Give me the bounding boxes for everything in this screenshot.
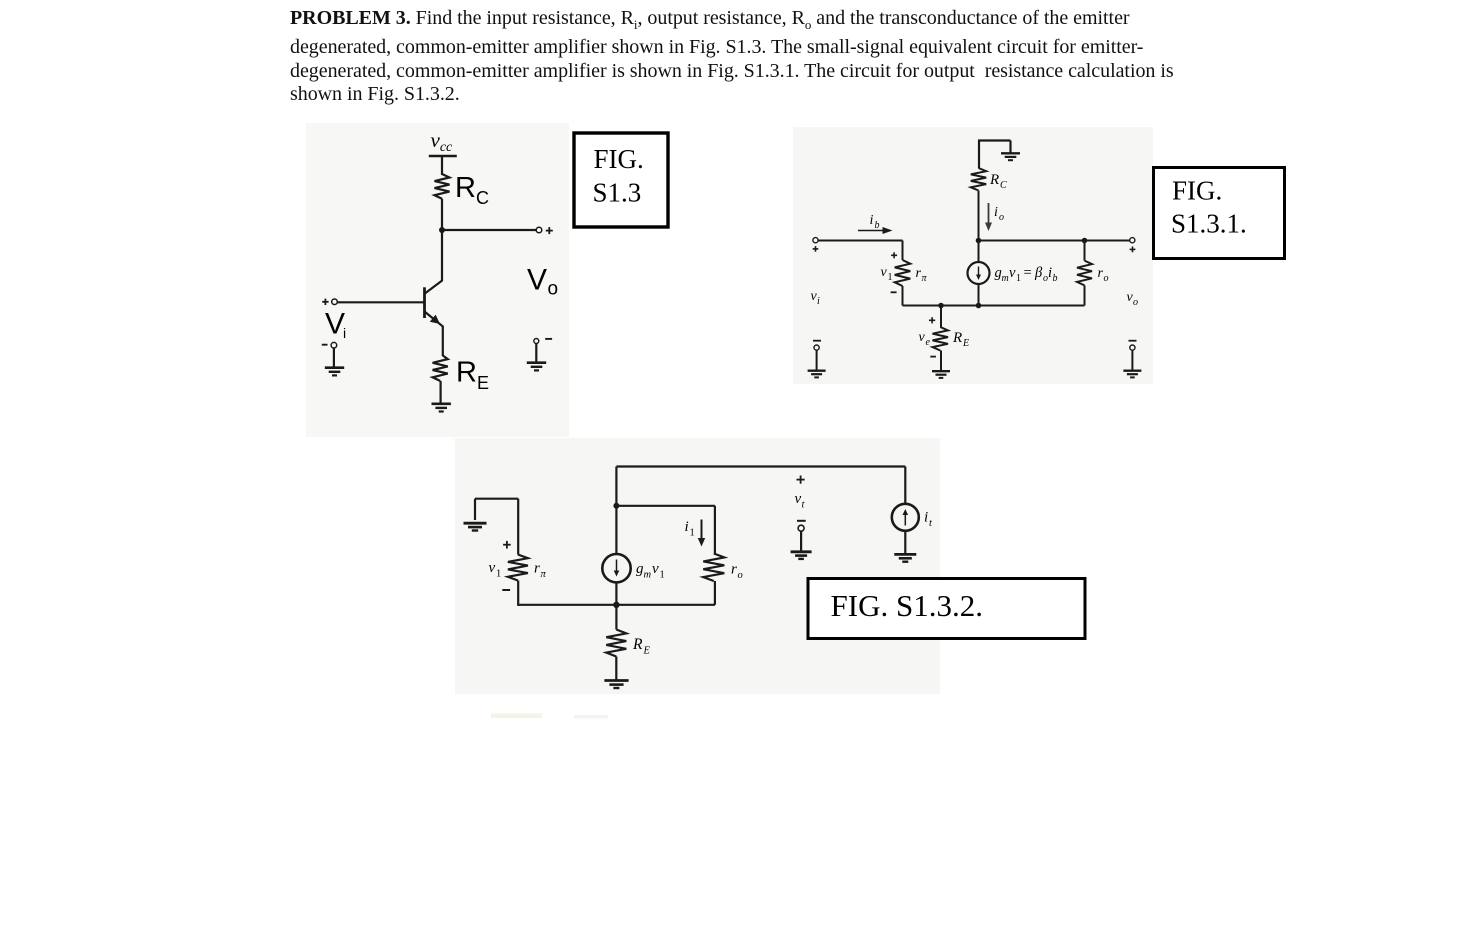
minus ve [930, 356, 936, 358]
label vo italic [1127, 290, 1139, 308]
label vi italic [811, 289, 821, 307]
faint residue marks [491, 714, 608, 719]
plus ve [929, 317, 935, 323]
svg-text:R: R [952, 330, 962, 346]
svg-text:r: r [731, 562, 737, 578]
ground vi [808, 371, 826, 378]
svg-text:=: = [1024, 265, 1032, 281]
svg-text:o: o [738, 570, 743, 581]
ground top [1001, 153, 1020, 160]
svg-text:C: C [1000, 180, 1007, 191]
svg-text:i: i [817, 296, 820, 307]
node collector junction [439, 227, 445, 233]
plus vi [813, 246, 819, 252]
output plus sign [546, 227, 553, 234]
svg-text:b: b [875, 220, 880, 231]
node ro top [1082, 238, 1088, 244]
top long wire [616, 467, 905, 507]
minus r_pi [891, 291, 897, 293]
left hook wire [475, 499, 518, 555]
wire source top test [615, 506, 617, 554]
wire ro bottom [714, 581, 716, 605]
vo minus bar [1129, 340, 1137, 342]
label Vo [527, 264, 558, 300]
svg-text:o: o [1133, 297, 1138, 308]
svg-text:v: v [1009, 265, 1016, 281]
input wire [818, 240, 903, 242]
resistor r_pi [895, 260, 911, 286]
plus vt [797, 476, 805, 484]
svg-text:S1.3: S1.3 [593, 178, 642, 208]
wire it to ground [904, 531, 906, 554]
wire source top [978, 241, 980, 263]
svg-text:R: R [989, 172, 999, 188]
wire RE to ground [440, 381, 442, 403]
input terminal vi [813, 238, 818, 243]
label ro test [731, 562, 743, 582]
transistor Q1 [425, 280, 444, 327]
resistor r_pi test [508, 555, 528, 581]
problem statement paragraph [290, 7, 1210, 106]
vi minus terminal circle [814, 345, 819, 350]
svg-text:v: v [919, 330, 926, 345]
top ground wire [978, 141, 1011, 169]
current source gmv1 test [602, 554, 630, 582]
bottom rail test [518, 604, 715, 606]
io arrow [985, 203, 992, 231]
svg-text:V: V [527, 264, 547, 297]
wire r_pi to bottom rail [902, 286, 904, 306]
svg-text:R: R [456, 357, 477, 389]
label io [994, 205, 1004, 223]
svg-text:r: r [534, 561, 540, 577]
node top rail left [976, 238, 982, 244]
Vcc label [431, 128, 454, 155]
label RC italic [989, 172, 1007, 191]
resistor ro test [703, 554, 724, 582]
Vcc supply bar [429, 155, 457, 158]
wire source bottom [978, 284, 980, 306]
svg-text:o: o [999, 212, 1004, 223]
label r_pi [916, 266, 928, 284]
svg-text:e: e [926, 337, 931, 348]
ground vo [1123, 371, 1141, 378]
label Vi [325, 308, 346, 342]
svg-text:1: 1 [1016, 273, 1021, 284]
svg-text:m: m [644, 570, 652, 581]
wire RE bottom test [615, 657, 617, 680]
wire RE top test [615, 605, 617, 630]
resistor RE small-signal [933, 306, 949, 371]
svg-text:i: i [994, 205, 998, 220]
label it [924, 510, 933, 530]
svg-text:1: 1 [496, 569, 501, 580]
svg-text:R: R [455, 172, 476, 204]
output terminal circle [536, 227, 542, 233]
inner top wire [616, 506, 715, 554]
ground RE small-signal [932, 371, 950, 378]
vo minus terminal circle [1130, 345, 1135, 350]
wire down to r_pi [902, 241, 904, 261]
ground RE [432, 404, 451, 412]
resistor RC [435, 174, 450, 199]
svg-text:i: i [343, 325, 346, 341]
svg-text:v: v [652, 561, 659, 577]
vt terminal circle [798, 525, 804, 531]
ground output [527, 363, 546, 371]
wire vt to ground [800, 531, 802, 551]
wire RC to node [978, 191, 980, 241]
wire RC to node [441, 199, 443, 281]
node RE top [938, 303, 944, 309]
svg-text:v: v [881, 265, 888, 280]
label v1 test [489, 560, 502, 580]
svg-text:π: π [541, 569, 547, 580]
input terminal circle [332, 299, 338, 305]
svg-text:E: E [477, 373, 489, 393]
output minus terminal circle [534, 339, 539, 344]
svg-text:i: i [685, 519, 689, 535]
minus v1 test [502, 589, 510, 591]
ground RE test [604, 681, 628, 689]
vt minus bar [797, 520, 806, 522]
node bottom rail [613, 602, 619, 608]
ground input [325, 368, 344, 376]
svg-text:E: E [962, 338, 969, 349]
i1 arrow [698, 520, 705, 547]
plus r_pi [891, 252, 897, 258]
svg-text:1: 1 [888, 272, 893, 283]
svg-text:o: o [1104, 273, 1109, 284]
ground vt [791, 552, 812, 559]
FIG. S1.3.2. box [808, 579, 1085, 639]
scan background figure S1.3.2 [455, 438, 940, 694]
top rail wire [979, 240, 1131, 242]
svg-text:β: β [1034, 265, 1043, 281]
input minus sign [322, 344, 328, 346]
svg-text:S1.3.1.: S1.3.1. [1171, 209, 1247, 239]
label RE test [632, 636, 651, 657]
wire minus terminal to ground [333, 348, 335, 367]
wire node to output terminal [442, 229, 536, 231]
ground it [894, 554, 916, 561]
wire Vcc to RC [441, 156, 443, 175]
label ro [1098, 266, 1109, 284]
label i1 [685, 519, 695, 539]
svg-text:i: i [924, 510, 928, 526]
svg-text:1: 1 [690, 528, 695, 539]
label RC [455, 172, 489, 208]
svg-text:1: 1 [660, 570, 665, 581]
svg-text:m: m [1002, 273, 1009, 284]
ib arrow [858, 227, 893, 234]
svg-text:R: R [632, 636, 643, 653]
wire vi minus to ground [816, 350, 818, 370]
wire top to it source [904, 467, 906, 505]
label gmv1 test [636, 561, 665, 581]
bottom rail [903, 305, 1085, 307]
label ib [870, 213, 880, 231]
svg-text:v: v [795, 491, 802, 507]
output minus sign [545, 338, 552, 340]
FIG. S1.3.1. box [1154, 168, 1285, 259]
plus v1 test [503, 541, 511, 549]
wire vo minus to ground [1131, 350, 1133, 370]
svg-text:FIG. S1.3.2.: FIG. S1.3.2. [831, 588, 983, 623]
current source it [892, 504, 919, 531]
input minus terminal circle [331, 342, 337, 348]
svg-text:i: i [1048, 265, 1052, 281]
base wire [337, 301, 425, 303]
resistor RC small-signal [971, 168, 986, 191]
emitter wire [442, 326, 444, 356]
label gmv1 = beta ib [995, 265, 1058, 284]
input plus sign [322, 299, 328, 305]
FIG. S1.3 box [574, 133, 668, 227]
scan background figure S1.3 [306, 123, 569, 437]
ground left hook [464, 523, 487, 530]
label vt [795, 491, 806, 511]
resistor RE [433, 356, 448, 382]
label r_pi test [534, 561, 547, 581]
svg-text:FIG.: FIG. [594, 144, 644, 174]
wire output minus to ground [535, 344, 537, 363]
label RE italic [952, 330, 969, 349]
node inner loop top [613, 503, 619, 509]
svg-text:V: V [325, 308, 345, 341]
current source gmv1 [968, 262, 990, 284]
label RE [456, 357, 489, 394]
label ve [919, 330, 931, 348]
plus vo [1130, 247, 1136, 253]
svg-text:C: C [476, 188, 489, 208]
output terminal vo [1130, 238, 1135, 243]
wire source bottom test [615, 582, 617, 604]
resistor RE test [606, 630, 626, 657]
node source bottom [976, 303, 982, 309]
svg-text:o: o [548, 279, 559, 300]
label v1 [881, 265, 893, 283]
scan background figure S1.3.1 [793, 127, 1153, 384]
svg-text:b: b [1053, 273, 1058, 284]
resistor ro [1077, 241, 1092, 306]
svg-text:v: v [489, 560, 496, 576]
wire r_pi bottom [517, 581, 519, 606]
svg-text:FIG.: FIG. [1172, 176, 1222, 206]
vi minus bar [813, 340, 821, 342]
svg-text:E: E [643, 646, 651, 657]
svg-text:i: i [870, 213, 874, 228]
